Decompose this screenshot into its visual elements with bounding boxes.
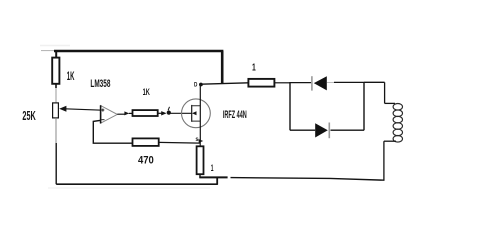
svg-text:1K: 1K: [67, 70, 75, 84]
svg-text:1: 1: [211, 162, 214, 173]
svg-text:IRFZ 44N: IRFZ 44N: [223, 108, 247, 121]
svg-text:LM358: LM358: [90, 77, 110, 89]
svg-text:470: 470: [138, 155, 154, 167]
svg-text:25K: 25K: [22, 109, 36, 124]
svg-text:D: D: [194, 82, 197, 89]
svg-text:1K: 1K: [143, 87, 151, 98]
svg-text:1: 1: [252, 61, 256, 73]
